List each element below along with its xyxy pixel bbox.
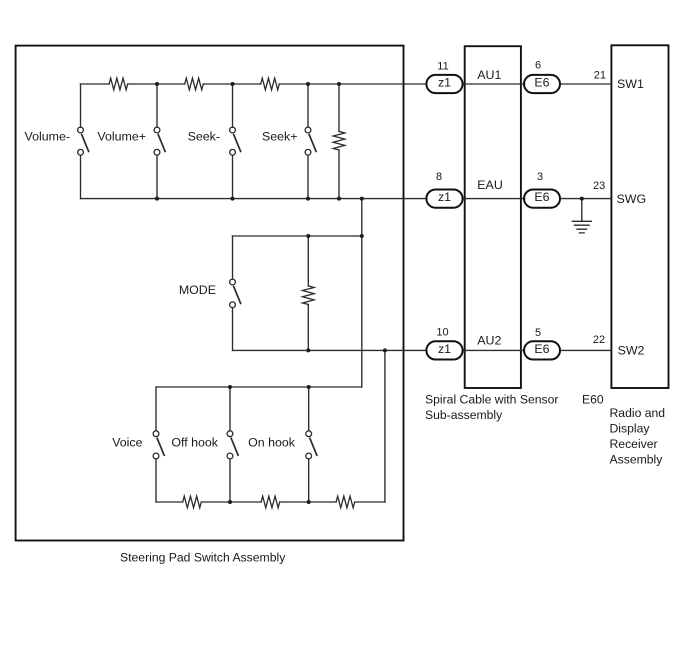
connector E6 pin 6	[524, 75, 560, 93]
node MODE rail x361.8	[360, 234, 364, 238]
connector E6 pin 3	[524, 189, 560, 207]
svg-text:z1: z1	[438, 342, 451, 356]
box: Steering Pad Switch Assembly	[16, 46, 404, 541]
svg-text:z1: z1	[438, 190, 451, 204]
wire: row2 to connectors	[464, 198, 612, 200]
wire: top rail AU1 row	[81, 83, 426, 85]
wire: row1 to connectors	[464, 83, 612, 85]
svg-text:Sub-assembly: Sub-assembly	[425, 408, 503, 422]
resistor R1 top rail	[109, 78, 128, 90]
svg-text:AU1: AU1	[477, 68, 501, 82]
resistor R8 bottom rail	[336, 496, 355, 508]
resistor R4 vertical top section	[338, 84, 340, 199]
svg-text:E6: E6	[534, 76, 549, 90]
svg-text:E60: E60	[582, 393, 604, 407]
connector z1 pin 8	[426, 189, 462, 207]
node bottom rail x308.7	[307, 500, 311, 504]
svg-text:Off hook: Off hook	[171, 436, 218, 450]
svg-text:11: 11	[437, 61, 448, 73]
node lower rail x230	[228, 385, 232, 389]
resistor R5 vertical MODE	[307, 236, 309, 350]
node EAU x157	[155, 197, 159, 201]
node MODE rail x308.3	[306, 234, 310, 238]
svg-text:AU2: AU2	[477, 333, 501, 347]
svg-text:Seek+: Seek+	[262, 129, 297, 143]
node ground junction	[580, 197, 584, 201]
node EAU x361.8	[360, 197, 364, 201]
wire: row3 to connectors	[464, 349, 612, 351]
wire: bottom section top rail	[156, 386, 362, 388]
svg-text:5: 5	[535, 327, 541, 339]
wire: AU2 rail (MODE bottom)	[233, 349, 427, 351]
svg-text:10: 10	[436, 326, 448, 338]
svg-text:MODE: MODE	[179, 283, 216, 297]
switch Seek+	[307, 84, 309, 199]
svg-text:21: 21	[594, 70, 606, 82]
svg-text:Radio and: Radio and	[610, 406, 666, 420]
node EAU x308	[306, 197, 310, 201]
switch Volume+	[156, 84, 158, 199]
node top rail x308	[306, 82, 310, 86]
wire: bottom rail up to AU2	[384, 350, 386, 502]
box: Radio and Display Receiver Assembly	[611, 45, 668, 388]
svg-text:E6: E6	[534, 342, 549, 356]
svg-text:Assembly: Assembly	[610, 453, 664, 467]
switch MODE	[232, 236, 234, 350]
resistor R2 top rail	[185, 78, 204, 90]
svg-text:SWG: SWG	[617, 192, 647, 206]
node top rail x339	[337, 82, 341, 86]
node top rail x157	[155, 82, 159, 86]
resistor R7 bottom rail	[261, 496, 280, 508]
node AU2 x384.9	[383, 348, 387, 352]
connector z1 pin 10	[426, 341, 462, 359]
switch Volume-	[80, 84, 82, 199]
svg-text:Seek-: Seek-	[188, 129, 220, 143]
svg-text:Receiver: Receiver	[610, 437, 658, 451]
connector E6 pin 5	[524, 341, 560, 359]
svg-text:Volume-: Volume-	[25, 129, 70, 143]
svg-text:Spiral Cable with Sensor: Spiral Cable with Sensor	[425, 393, 558, 407]
wire: EAU bottom rail of top section	[81, 198, 427, 200]
wire: vertical EAU to lower sections	[361, 199, 363, 387]
wire: MODE top rail	[233, 235, 362, 237]
svg-text:22: 22	[593, 334, 605, 346]
svg-text:E6: E6	[534, 190, 549, 204]
node EAU x339	[337, 197, 341, 201]
svg-text:Volume+: Volume+	[97, 129, 146, 143]
svg-text:EAU: EAU	[477, 178, 502, 192]
node lower rail x308.7	[307, 385, 311, 389]
node bottom rail x230	[228, 500, 232, 504]
svg-text:SW1: SW1	[617, 77, 644, 91]
svg-text:Display: Display	[610, 422, 651, 436]
box: Spiral Cable with Sensor Sub-assembly	[465, 46, 521, 388]
node top rail x232.5	[231, 82, 235, 86]
switch Voice	[155, 387, 157, 502]
node AU2 x308.3	[306, 348, 310, 352]
switch On hook	[308, 387, 310, 502]
svg-text:3: 3	[537, 171, 543, 183]
svg-text:z1: z1	[438, 76, 451, 90]
svg-text:SW2: SW2	[618, 343, 645, 357]
switch Seek-	[232, 84, 234, 199]
resistor R3 top rail	[261, 78, 280, 90]
resistor R6 bottom rail	[183, 496, 202, 508]
wire: bottom rail with resistors	[156, 501, 385, 503]
connector z1 pin 11	[426, 75, 462, 93]
svg-text:6: 6	[535, 60, 541, 72]
svg-text:On hook: On hook	[248, 436, 296, 450]
node EAU x232.5	[231, 197, 235, 201]
svg-text:23: 23	[593, 180, 605, 192]
svg-text:Voice: Voice	[112, 436, 142, 450]
svg-text:8: 8	[436, 171, 442, 183]
switch Off hook	[229, 387, 231, 502]
ground	[581, 199, 583, 222]
svg-text:Steering Pad Switch Assembly: Steering Pad Switch Assembly	[120, 551, 286, 565]
